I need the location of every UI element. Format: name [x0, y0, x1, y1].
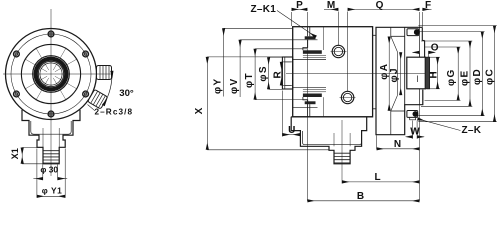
- bore innermost circle: [40, 63, 62, 85]
- svg-text:30°: 30°: [119, 88, 134, 99]
- svg-text:P: P: [296, 0, 303, 11]
- boss hatch band: [425, 57, 429, 89]
- bolt hole lower-left: [14, 91, 20, 97]
- left view centerline horizontal: [3, 73, 113, 75]
- dim U: [282, 91, 300, 137]
- svg-text:W: W: [410, 127, 420, 138]
- left view connector ribs: [43, 151, 59, 163]
- svg-text:2–Rc3/8: 2–Rc3/8: [95, 108, 134, 117]
- side view horizontal centerline: [286, 73, 434, 75]
- bottom notch: [410, 117, 416, 119]
- svg-text:φS: φS: [258, 65, 269, 81]
- dimension phi30: [33, 165, 67, 181]
- internal ring lines: [293, 39, 318, 41]
- dim R: [281, 62, 290, 86]
- shaft boss: [407, 57, 426, 89]
- bottom block inner contour: [303, 131, 362, 145]
- dimension X1: [22, 148, 42, 164]
- terminal cylinder top: [407, 29, 419, 36]
- svg-text:F: F: [425, 0, 431, 11]
- svg-text:φC: φC: [485, 68, 496, 85]
- centerline over port: [97, 73, 114, 75]
- rear cone taper: [391, 36, 398, 52]
- bolt hole upper-right: [83, 51, 89, 57]
- terminal cylinder bottom: [407, 111, 418, 118]
- dim phiD: [418, 32, 484, 116]
- svg-text:Z–K: Z–K: [462, 125, 482, 136]
- svg-text:L: L: [374, 172, 380, 183]
- dim H: [427, 57, 440, 89]
- left view body inner contour: [31, 121, 71, 134]
- dim F: [420, 9, 432, 27]
- svg-text:Q: Q: [376, 0, 384, 11]
- svg-text:U: U: [288, 125, 295, 136]
- left view bottom body outline: [22, 110, 80, 164]
- rear flange block: [376, 27, 423, 134]
- main body block: [293, 27, 373, 117]
- dim P: [292, 9, 308, 26]
- side view connector centerline: [341, 120, 343, 184]
- dim B: [307, 39, 419, 201]
- dim phiE: [421, 41, 472, 106]
- svg-text:H: H: [429, 71, 440, 78]
- tapped hole bottom: [306, 104, 308, 117]
- 30 degree arc dimension: [103, 71, 112, 106]
- dimension phiY1: [37, 149, 65, 198]
- svg-text:X: X: [194, 107, 205, 114]
- conduit port right (0 deg): [97, 66, 112, 80]
- svg-text:M: M: [327, 0, 335, 11]
- svg-text:φE: φE: [460, 70, 471, 86]
- dim phiT: [255, 49, 307, 100]
- svg-text:O: O: [431, 43, 439, 54]
- leader Z-K: [418, 119, 461, 131]
- svg-text:φD: φD: [472, 68, 483, 85]
- left view centerline vertical: [50, 9, 52, 176]
- dim phiC: [418, 26, 497, 122]
- bolt hole top: [48, 31, 54, 37]
- bolt circle: [11, 34, 91, 114]
- clamp window edge top: [323, 27, 325, 50]
- svg-text:φ 30: φ 30: [40, 165, 58, 175]
- leader 2-Rc3/8: [88, 105, 96, 111]
- svg-text:φ Y1: φ Y1: [42, 185, 63, 195]
- dim phiY: [224, 28, 292, 96]
- svg-text:φG: φG: [446, 68, 457, 86]
- rear face lines: [419, 27, 421, 57]
- side connector hidden walls: [333, 133, 335, 146]
- dim phiV: [240, 40, 293, 97]
- svg-text:R: R: [272, 71, 283, 79]
- svg-text:B: B: [357, 191, 364, 202]
- bore outer circle: [33, 56, 70, 93]
- boss circle: [21, 44, 80, 103]
- clamp window edge bottom: [323, 97, 325, 117]
- screw hole lower: [340, 91, 356, 103]
- dim X: [207, 57, 328, 150]
- leader Z-K1: [277, 11, 316, 38]
- bore chamfer dark ring: [36, 59, 67, 90]
- outer flange circle: [6, 29, 97, 120]
- svg-text:φT: φT: [244, 72, 255, 88]
- front mounting plate: [282, 57, 292, 89]
- conduit port lower (30 deg): [88, 89, 108, 109]
- screw hole upper: [331, 45, 347, 57]
- dim phiA: [388, 37, 390, 111]
- bore inner circle: [38, 61, 63, 86]
- dim Q: [348, 8, 420, 10]
- dim N: [377, 105, 420, 201]
- svg-text:φY: φY: [213, 78, 224, 94]
- step detail top-left: [303, 39, 308, 50]
- dim phiJ: [400, 52, 402, 95]
- rear inner verticals: [404, 27, 406, 104]
- step detail bottom-left: [303, 97, 308, 104]
- clamp bar bottom: [303, 94, 322, 98]
- bolt hole upper-left: [14, 51, 20, 57]
- body/rear joint slit: [375, 27, 377, 117]
- dim phiS: [269, 57, 283, 89]
- left view bolt-hole spokes: [25, 48, 77, 100]
- bolt hole bottom: [48, 111, 54, 117]
- side view bottom stepped outline: [291, 116, 372, 118]
- dim L: [342, 181, 420, 183]
- svg-text:Z–K1: Z–K1: [251, 4, 277, 15]
- bolt hole lower-right: [83, 91, 89, 97]
- dim M: [324, 9, 348, 91]
- Z-K1 tapped hole top: [306, 27, 308, 37]
- side connector ribs: [334, 153, 350, 163]
- svg-text:N: N: [394, 139, 401, 150]
- svg-text:X1: X1: [10, 148, 20, 159]
- dim W: [406, 121, 424, 139]
- left view connector hidden walls: [42, 128, 44, 147]
- svg-text:φJ: φJ: [389, 67, 400, 82]
- dim phiG: [425, 47, 461, 100]
- clamp bar top: [303, 50, 322, 54]
- rear hub box: [391, 35, 405, 37]
- dim O: [413, 51, 435, 57]
- svg-text:φV: φV: [229, 78, 240, 94]
